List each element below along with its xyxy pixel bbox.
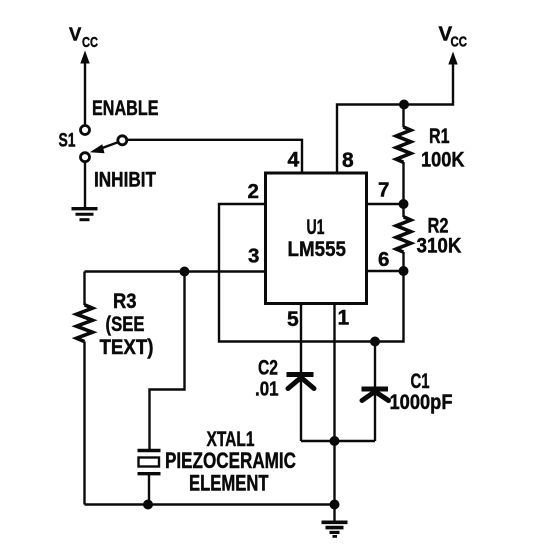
svg-text:U1: U1 [307,215,325,239]
svg-text:8: 8 [342,149,354,172]
svg-text:7: 7 [378,179,389,202]
svg-text:R3: R3 [113,290,137,313]
svg-text:310K: 310K [417,234,462,258]
svg-text:CC: CC [82,34,98,51]
svg-text:C2: C2 [258,356,278,380]
svg-text:ENABLE: ENABLE [92,97,159,120]
svg-text:5: 5 [287,308,299,331]
svg-text:(SEE: (SEE [106,313,145,336]
svg-text:PIEZOCERAMIC: PIEZOCERAMIC [165,448,296,473]
svg-text:2: 2 [248,180,259,203]
svg-text:R1: R1 [429,124,450,148]
svg-text:TEXT): TEXT) [100,336,154,359]
svg-text:INHIBIT: INHIBIT [94,169,156,192]
svg-text:3: 3 [248,245,259,268]
svg-text:V: V [69,24,82,45]
svg-text:.01: .01 [255,379,279,401]
svg-text:1: 1 [338,307,350,330]
svg-text:4: 4 [288,149,300,172]
svg-text:LM555: LM555 [288,237,347,261]
svg-text:1000pF: 1000pF [390,391,453,414]
svg-text:C1: C1 [411,369,430,393]
svg-text:CC: CC [451,34,468,51]
svg-text:ELEMENT: ELEMENT [189,471,269,496]
svg-text:100K: 100K [421,147,465,171]
svg-text:6: 6 [378,248,389,271]
svg-text:S1: S1 [59,131,76,152]
